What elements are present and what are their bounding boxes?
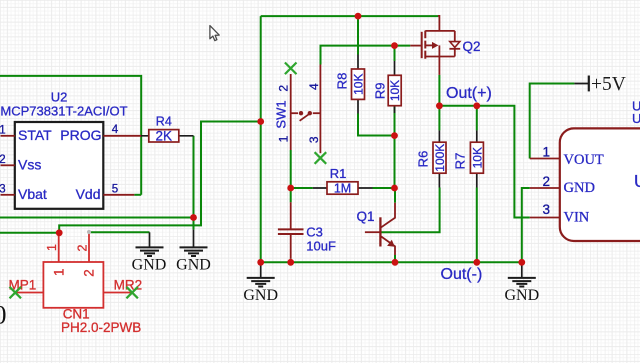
switch SW1 [274, 65, 322, 154]
wire CN1 pin1 to upper net [59, 122, 261, 233]
svg-text:U2: U2 [51, 90, 68, 105]
svg-text:1: 1 [52, 269, 67, 277]
wire bottom rail [261, 261, 522, 263]
svg-text:3: 3 [543, 202, 551, 217]
wire R7 top [476, 106, 478, 131]
svg-text:10K: 10K [470, 147, 484, 168]
svg-text:Vbat: Vbat [18, 186, 47, 202]
svg-text:MR2: MR2 [114, 278, 143, 293]
wire left edge to CN1 pin1 [0, 232, 59, 234]
svg-text:STAT: STAT [18, 127, 52, 143]
wire C3 top [290, 188, 292, 202]
svg-text:5: 5 [112, 183, 118, 195]
resistor R9 [373, 61, 403, 113]
svg-text:VIN: VIN [564, 209, 590, 225]
svg-text:R8: R8 [335, 73, 350, 90]
svg-text:10K: 10K [388, 80, 402, 101]
capacitor C3 [278, 202, 336, 258]
wire R8 bottom to R9 column [358, 114, 395, 136]
transistor Q2 (P-MOSFET with body diode) [410, 16, 460, 75]
svg-text:GND: GND [243, 287, 278, 304]
ground GND2 [176, 230, 211, 274]
svg-text:Vss: Vss [18, 156, 41, 172]
svg-text:4: 4 [307, 83, 321, 90]
wire Vdd top: left edge to U2 Vdd [0, 76, 141, 195]
mouse cursor [210, 26, 219, 41]
wire Q1 base to R6 bottom [382, 188, 440, 233]
svg-text:SW1: SW1 [274, 100, 289, 128]
ground GND1 [132, 232, 167, 273]
svg-text:1: 1 [277, 135, 291, 142]
svg-text:1: 1 [0, 125, 6, 137]
wire net A: left edge to junction above GND [0, 217, 194, 219]
svg-text:2: 2 [75, 244, 89, 251]
svg-text:2: 2 [277, 85, 291, 92]
svg-text:PROG: PROG [60, 127, 101, 143]
svg-text:PH2.0-2PWB: PH2.0-2PWB [61, 320, 141, 335]
svg-text:10uF: 10uF [306, 239, 336, 254]
wire Q1 emitter to bottom rail [394, 255, 396, 262]
wire CN1 pin2 to GND1 [91, 231, 150, 233]
svg-text:GND: GND [132, 256, 167, 273]
wire gate rail SW1 to Q2 [321, 46, 411, 65]
svg-text:Q2: Q2 [463, 39, 481, 54]
wire Out(+) row to VIN [439, 106, 529, 218]
svg-text:Out(-): Out(-) [441, 266, 483, 283]
svg-text:U: U [632, 111, 640, 126]
wire R1 row: junction to R1 left [291, 187, 313, 189]
svg-text:2K: 2K [156, 128, 173, 143]
svg-text:2: 2 [543, 174, 551, 189]
wire Q1 collector up to R1 junction [394, 188, 396, 203]
svg-text:R9: R9 [373, 82, 388, 99]
wire R9 bottom through R1 junction [394, 106, 396, 188]
svg-text:+5V: +5V [591, 74, 626, 95]
ground GND4 [504, 262, 539, 304]
wire C3 bottom [290, 259, 292, 263]
svg-text:R6: R6 [416, 151, 431, 168]
svg-text:10K: 10K [351, 74, 365, 95]
wire from R4 down to GND2 [193, 136, 195, 230]
no-connect X on SW1 pin2 [285, 63, 297, 75]
svg-text:4: 4 [112, 124, 119, 136]
svg-text:2: 2 [82, 269, 97, 277]
svg-text:3: 3 [307, 136, 321, 143]
svg-text:3: 3 [0, 184, 6, 196]
no-connect X on SW1 pin3 [315, 152, 327, 164]
wire R8 top [357, 16, 359, 54]
svg-text:U: U [634, 171, 640, 191]
svg-text:R1: R1 [330, 166, 347, 181]
IC U2 MCP73831 [0, 90, 141, 209]
resistor R8 [335, 55, 366, 114]
svg-text:Out(+): Out(+) [446, 85, 492, 102]
wire GND vertical trunk [260, 16, 262, 262]
svg-text:R4: R4 [156, 115, 172, 129]
wire +5V to VOUT [530, 84, 575, 159]
resistor R1 [313, 166, 373, 196]
svg-text:Q1: Q1 [357, 209, 375, 224]
wire GND pin2 of U3 [522, 188, 530, 262]
IC U3 regulator (right, cut off) [530, 98, 640, 241]
svg-text:1M: 1M [334, 182, 351, 196]
svg-text:R7: R7 [453, 153, 468, 170]
wire R9 top [394, 46, 396, 61]
ground GND3 [243, 262, 278, 304]
wire R1 right to column [373, 187, 395, 189]
svg-text:GND: GND [504, 287, 539, 304]
svg-text:C3: C3 [306, 225, 323, 240]
resistor R6 [416, 130, 447, 187]
svg-text:1: 1 [543, 144, 551, 159]
svg-text:100K: 100K [433, 144, 447, 172]
no-connect X on MP1 [10, 287, 22, 299]
svg-text:0: 0 [0, 301, 7, 330]
transistor Q1 (NPN) [357, 203, 396, 255]
wire top rail [261, 15, 439, 17]
wire Q2 source down to Out(+) [438, 75, 440, 106]
resistor R4 [141, 115, 194, 144]
svg-text:Vdd: Vdd [76, 186, 101, 202]
wire R7 bottom to rail [476, 188, 478, 263]
svg-text:VOUT: VOUT [564, 152, 604, 168]
wire R6 top [438, 106, 440, 131]
no-connect X on MR2 [126, 287, 137, 299]
svg-text:MCP73831T-2ACI/OT: MCP73831T-2ACI/OT [0, 104, 127, 119]
svg-text:GND: GND [176, 256, 211, 273]
connector CN1 [9, 230, 143, 335]
svg-text:1: 1 [45, 244, 59, 251]
svg-text:2: 2 [0, 154, 6, 166]
svg-text:GND: GND [564, 180, 595, 196]
power +5V [574, 74, 625, 95]
resistor R7 [453, 130, 485, 187]
wire SW1 pin1 down to R1 row [290, 150, 292, 188]
